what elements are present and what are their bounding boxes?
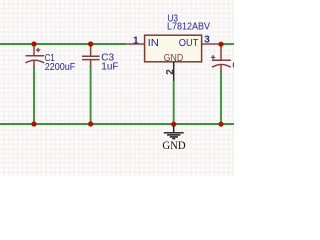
svg-text:OUT: OUT (179, 38, 199, 49)
svg-text:GND: GND (162, 140, 185, 152)
svg-text:1uF: 1uF (101, 62, 118, 73)
svg-text:2: 2 (165, 69, 176, 75)
svg-text:2200uF: 2200uF (45, 62, 76, 73)
svg-text:1: 1 (133, 35, 139, 46)
svg-text:IN: IN (148, 38, 159, 49)
svg-text:GND: GND (164, 53, 184, 64)
svg-text:3: 3 (204, 34, 210, 45)
svg-text:C: C (232, 60, 234, 71)
svg-text:L7812ABV: L7812ABV (167, 22, 210, 33)
